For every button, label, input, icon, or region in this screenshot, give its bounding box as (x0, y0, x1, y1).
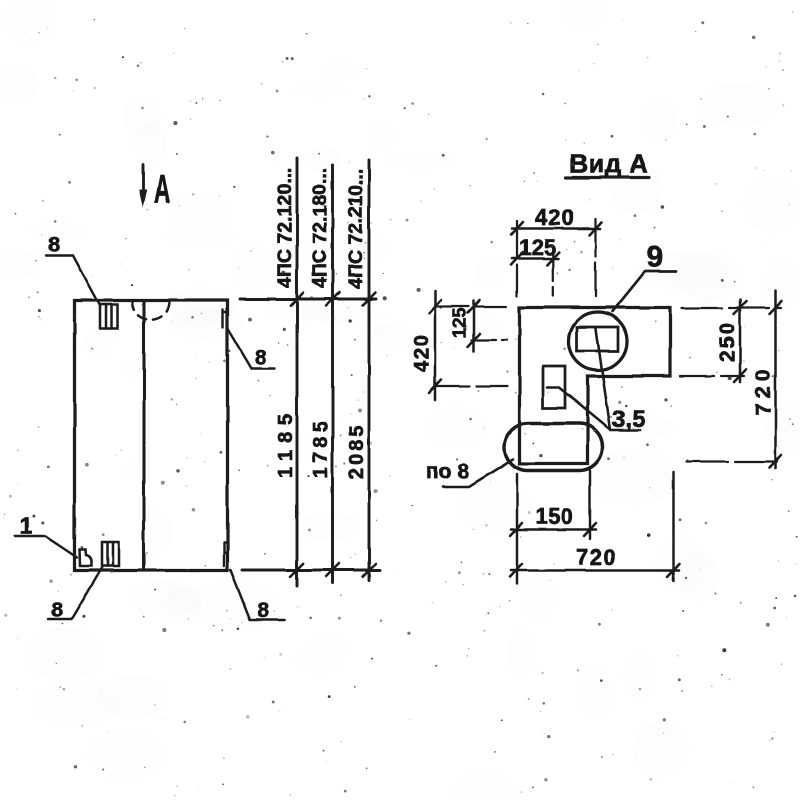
svg-text:A: A (154, 167, 170, 212)
svg-text:1785: 1785 (310, 418, 332, 479)
svg-text:4ПС 72.120...: 4ПС 72.120... (274, 168, 296, 288)
svg-text:1: 1 (19, 513, 32, 540)
svg-text:720: 720 (576, 545, 617, 570)
svg-text:8: 8 (51, 599, 63, 622)
svg-text:420: 420 (535, 205, 575, 230)
svg-text:125: 125 (519, 235, 556, 260)
svg-text:150: 150 (536, 504, 574, 529)
svg-text:250: 250 (716, 321, 739, 362)
svg-text:2085: 2085 (346, 423, 368, 480)
svg-text:125: 125 (450, 308, 470, 338)
svg-text:по 8: по 8 (426, 460, 469, 483)
svg-text:720: 720 (752, 365, 775, 415)
svg-text:8: 8 (255, 346, 267, 369)
